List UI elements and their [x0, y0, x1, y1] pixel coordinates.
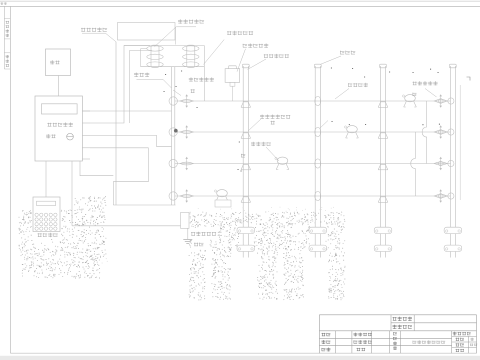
host box	[35, 96, 82, 161]
wire host stub3 to bar	[90, 136, 172, 147]
frame left edge cells	[3, 6, 5, 69]
wire host stub1 to terminal bar	[82, 110, 171, 112]
frame top-left tiny text	[1, 2, 7, 5]
tensioner bird row3	[277, 157, 288, 164]
approve row2	[322, 340, 331, 344]
host label line2	[46, 134, 56, 138]
resp row2	[354, 340, 372, 344]
ground drop	[187, 228, 189, 239]
resp row1	[354, 333, 372, 337]
content vertical label	[393, 332, 397, 335]
underground clamps P1	[237, 227, 255, 233]
project cell label	[393, 325, 413, 329]
left tensioner row4	[169, 192, 177, 200]
drawing frame bottom border	[10, 352, 476, 354]
mid tensioner label	[251, 142, 271, 146]
wall vertical	[115, 42, 117, 205]
tensioner bird row4	[217, 190, 228, 197]
alloy wire label	[348, 83, 368, 87]
stray diagonal mark	[320, 121, 328, 129]
arrester label leader	[154, 27, 176, 47]
drawing title	[413, 340, 446, 344]
right tensioner row2	[434, 130, 447, 133]
underground clamps P2	[309, 227, 327, 233]
arrester left box edge	[140, 49, 142, 67]
arrester top bus	[124, 45, 204, 47]
wall base line	[113, 204, 175, 206]
left tensioner row3	[169, 159, 177, 167]
right tensioner row3	[434, 162, 447, 165]
arrester right drop to row1	[203, 46, 205, 102]
power supply box	[46, 49, 71, 76]
post P2 (load post)	[314, 66, 316, 258]
terminal bar leader	[137, 78, 164, 80]
alarm dome	[228, 66, 237, 69]
ground stipple fringe	[102, 207, 341, 263]
sheet no label	[456, 343, 465, 346]
junction box top	[118, 23, 176, 41]
power supply label	[50, 60, 60, 64]
load insulator leader	[425, 89, 437, 98]
post P1 (PV pass post)	[242, 66, 244, 258]
right tensioner row4	[434, 194, 447, 197]
drawing frame top outer line	[0, 0, 480, 2]
PV insulator label	[260, 115, 290, 119]
ground stipple left cloud	[19, 197, 106, 278]
host output stubs	[82, 110, 90, 112]
ground wire riser	[71, 161, 73, 226]
ground wire lower	[72, 225, 181, 227]
host indicator circle	[67, 133, 74, 140]
wire host stub3 inner loop	[130, 51, 153, 124]
ground label line1	[191, 232, 216, 236]
keypad display	[37, 201, 56, 205]
dark specks	[164, 68, 441, 171]
right tensioner row1	[434, 99, 447, 102]
alloy wire leader	[335, 89, 349, 100]
clamp leader	[173, 90, 181, 96]
keypad keys	[35, 213, 38, 216]
arrester label	[178, 19, 204, 24]
HV insulated line label	[227, 31, 253, 36]
host display window	[42, 104, 78, 114]
wire host stub4 to wall base	[90, 148, 148, 205]
keypad wire from host	[45, 161, 47, 197]
design no label	[453, 332, 471, 336]
resp row3	[357, 348, 366, 351]
PV pass post label	[264, 54, 289, 58]
PV insulator leader	[248, 119, 261, 131]
fence wire row3	[175, 163, 451, 165]
tensioner bird row1	[405, 95, 416, 102]
corner tick mark	[467, 77, 471, 81]
HV cable label	[81, 27, 107, 32]
left tensioner row1	[169, 97, 177, 105]
approve row1	[322, 333, 331, 336]
alarm body	[225, 69, 240, 83]
alarm stem	[230, 82, 235, 86]
ground stipple columns	[189, 250, 345, 300]
title block grid	[319, 314, 476, 316]
fence wire row4	[175, 195, 451, 197]
HV insulated line leader	[204, 40, 225, 65]
post P3	[379, 66, 381, 258]
host label line1	[47, 122, 73, 126]
wire host stub2 to arrester outer	[90, 46, 150, 124]
underground clamps P4	[444, 227, 462, 233]
drawing frame left border	[9, 6, 11, 353]
approve row3	[322, 348, 331, 352]
fence wire row1	[175, 100, 451, 102]
wire host bottom to base	[80, 161, 113, 176]
mid tensioner leader	[266, 147, 279, 161]
terminal bar	[171, 67, 173, 205]
arrester bottom bus	[141, 66, 205, 68]
underground clamps P3	[374, 227, 392, 233]
ground stipple main band	[189, 212, 344, 250]
drawing frame top border	[0, 5, 480, 7]
date label	[456, 349, 465, 352]
sheets label	[456, 338, 465, 341]
sheet no value	[470, 344, 477, 346]
post P4 (end post)	[450, 66, 452, 258]
frame cell rotated text	[6, 21, 9, 24]
HV cable leader	[82, 32, 106, 34]
keypad label	[38, 233, 58, 237]
drop wire row1-row3	[422, 101, 427, 164]
alarm leader	[237, 49, 246, 72]
left tensioner row2	[169, 128, 177, 136]
ground electrode box	[181, 213, 190, 229]
terminal bar label	[134, 73, 149, 78]
sheets value	[471, 338, 474, 341]
load post label	[340, 51, 355, 55]
alarm pole	[232, 86, 234, 101]
keypad box	[33, 197, 60, 232]
ground symbol	[183, 239, 192, 241]
arrester stack 1	[151, 45, 159, 67]
owner cell label	[393, 317, 413, 321]
dark junction dot row2	[174, 129, 177, 132]
alarm label	[243, 43, 269, 47]
arrester stack 2	[187, 45, 195, 67]
wire power to host	[57, 76, 59, 97]
ground label line2	[194, 243, 204, 247]
drop wire row2-row4	[411, 132, 416, 196]
load insulator label	[413, 81, 438, 85]
PV pass post leader	[248, 59, 267, 70]
tensioner bird row2	[347, 126, 358, 133]
fence wire row2	[175, 131, 451, 133]
fixing clamp label	[189, 77, 214, 81]
bottom window band	[0, 356, 480, 360]
load post leader	[320, 56, 341, 65]
